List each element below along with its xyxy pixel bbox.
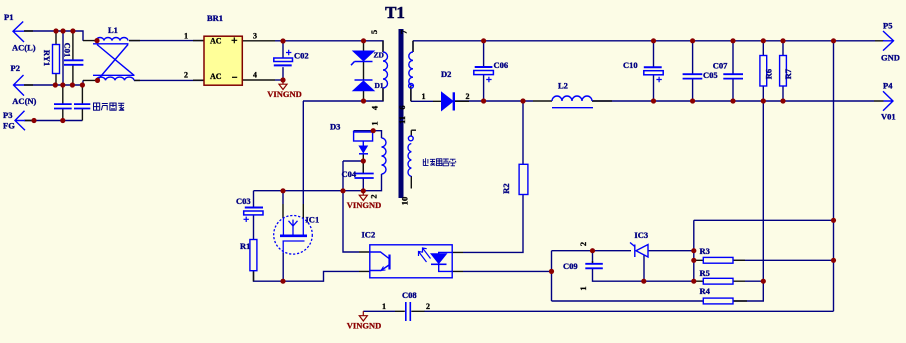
svg-text:P4: P4 bbox=[883, 81, 893, 91]
svg-text:1: 1 bbox=[382, 302, 386, 311]
svg-text:AC(N): AC(N) bbox=[12, 96, 36, 106]
svg-text:R1: R1 bbox=[240, 241, 250, 251]
svg-text:C05: C05 bbox=[703, 70, 718, 80]
svg-text:IC3: IC3 bbox=[634, 230, 648, 240]
svg-text:C03: C03 bbox=[236, 196, 251, 206]
svg-text:C09: C09 bbox=[563, 261, 578, 271]
svg-text:P5: P5 bbox=[883, 21, 892, 31]
svg-text:2: 2 bbox=[369, 194, 379, 198]
svg-text:2: 2 bbox=[578, 242, 588, 246]
svg-text:VINGND: VINGND bbox=[347, 321, 381, 331]
svg-text:VINGND: VINGND bbox=[267, 89, 301, 99]
svg-text:C02: C02 bbox=[294, 50, 309, 60]
svg-text:R3: R3 bbox=[700, 246, 710, 256]
svg-text:6: 6 bbox=[397, 105, 407, 109]
svg-text:IC1: IC1 bbox=[306, 215, 320, 225]
svg-text:P2: P2 bbox=[11, 63, 20, 73]
svg-text:V01: V01 bbox=[881, 112, 896, 122]
svg-text:2: 2 bbox=[466, 92, 470, 101]
svg-text:R6: R6 bbox=[764, 69, 774, 79]
svg-text:4: 4 bbox=[253, 71, 257, 80]
svg-text:RY1: RY1 bbox=[42, 50, 52, 66]
svg-text:IC2: IC2 bbox=[362, 229, 376, 239]
svg-text:1: 1 bbox=[184, 32, 188, 41]
svg-text:AC: AC bbox=[210, 72, 222, 81]
svg-text:C07: C07 bbox=[713, 61, 728, 71]
svg-text:R7: R7 bbox=[783, 68, 793, 79]
svg-text:L1: L1 bbox=[108, 25, 118, 35]
svg-text:D1: D1 bbox=[375, 81, 384, 90]
svg-text:C10: C10 bbox=[623, 60, 638, 70]
svg-text:C04: C04 bbox=[342, 169, 357, 179]
svg-text:BR1: BR1 bbox=[207, 13, 223, 23]
svg-text:P3: P3 bbox=[3, 110, 12, 120]
svg-text:1: 1 bbox=[578, 286, 588, 290]
svg-text:D2: D2 bbox=[441, 69, 451, 79]
svg-text:C01: C01 bbox=[63, 43, 73, 58]
svg-text:1: 1 bbox=[370, 121, 380, 125]
svg-text:T1: T1 bbox=[385, 3, 405, 22]
svg-text:R5: R5 bbox=[700, 268, 710, 278]
svg-text:GND: GND bbox=[881, 53, 900, 63]
svg-text:L2: L2 bbox=[558, 81, 568, 91]
svg-text:10: 10 bbox=[400, 197, 410, 206]
svg-text:C08: C08 bbox=[402, 290, 417, 300]
svg-text:FG: FG bbox=[3, 121, 15, 131]
svg-text:R2: R2 bbox=[501, 183, 511, 193]
svg-text:D3: D3 bbox=[330, 122, 340, 132]
svg-text:5: 5 bbox=[369, 30, 379, 34]
svg-text:2: 2 bbox=[426, 302, 430, 311]
svg-text:1: 1 bbox=[422, 92, 426, 101]
svg-text:AC: AC bbox=[210, 37, 222, 46]
svg-text:2: 2 bbox=[184, 71, 188, 80]
svg-text:P1: P1 bbox=[4, 12, 13, 22]
svg-text:C06: C06 bbox=[494, 60, 509, 70]
svg-text:11: 11 bbox=[397, 116, 407, 124]
svg-text:3: 3 bbox=[253, 32, 257, 41]
svg-text:AC(L): AC(L) bbox=[12, 43, 36, 53]
svg-text:R4: R4 bbox=[700, 286, 711, 296]
svg-text:VINGND: VINGND bbox=[347, 200, 381, 210]
svg-text:ZD: ZD bbox=[374, 51, 385, 60]
